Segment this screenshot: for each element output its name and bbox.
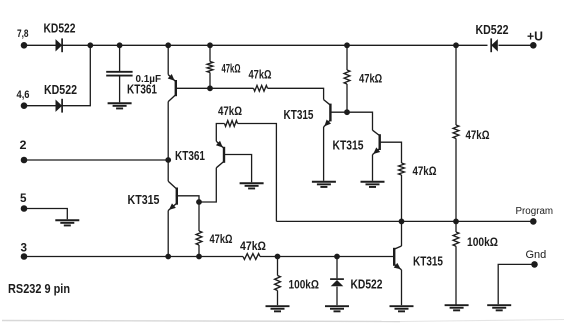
svg-text:47kΩ: 47kΩ <box>218 106 242 118</box>
wire Q5 base jog <box>176 196 199 202</box>
label Q4 KT315 <box>333 138 364 152</box>
junction pin2 node <box>165 157 171 163</box>
label R5 value 47k <box>218 106 242 118</box>
svg-text:KD522: KD522 <box>44 83 77 97</box>
resistor R4 47k <box>399 163 405 175</box>
label Q1 KT361 <box>127 83 157 97</box>
wire R8 top lead <box>277 257 279 276</box>
wire Q1-Q5 collector chain <box>167 102 169 182</box>
resistor R1 47k <box>207 62 213 73</box>
wire Q3 base to R3 node <box>330 111 347 113</box>
label pin 5 <box>20 191 27 205</box>
junction R8 / pin3 <box>275 254 281 260</box>
svg-text:+U: +U <box>527 29 543 43</box>
label C1 value 0.1uF <box>136 73 162 85</box>
junction Q5 emitter / pin3 <box>165 254 171 260</box>
junction node X <box>196 199 202 205</box>
ground (D3) <box>325 306 349 311</box>
svg-text:KT315: KT315 <box>333 138 364 152</box>
label R3 value 47k <box>359 72 382 86</box>
ground (Q2 base) <box>240 183 264 188</box>
label Q2 KT361 <box>175 149 205 163</box>
junction on rail at 4,6 join <box>87 42 93 48</box>
wire R1 bottom lead <box>209 73 211 89</box>
wire Q4 base to R4 <box>380 142 402 163</box>
wire top rail diode-to-+U segment <box>499 44 534 46</box>
wire Q6 collector to Program line <box>401 221 403 246</box>
label pin 7,8 <box>17 28 29 40</box>
terminal +U <box>530 42 537 49</box>
svg-text:47kΩ: 47kΩ <box>466 130 490 142</box>
junction Q6 collector / Program <box>399 219 405 225</box>
wire Q1 base to R1 node <box>176 87 210 89</box>
resistor R3 47k <box>344 70 350 84</box>
wire Q2 collector down to node X <box>199 168 216 202</box>
label D4 KD522 <box>476 23 509 37</box>
wire R2 right lead to Q3 collector <box>268 88 324 99</box>
wire Q4 emitter to ground <box>372 155 374 181</box>
terminal pin 7,8 <box>21 42 28 49</box>
label R9 value 47k <box>466 130 490 142</box>
svg-text:47kΩ: 47kΩ <box>359 72 382 86</box>
ground (Gnd terminal) <box>487 305 511 310</box>
wire R6 bottom lead <box>198 245 200 257</box>
svg-text:100kΩ: 100kΩ <box>467 235 498 249</box>
label D2 KD522 <box>44 83 77 97</box>
terminal pin 3 <box>21 253 28 260</box>
transistor Q4 KT315 (NPN) <box>373 130 381 154</box>
terminal pin 4,6 <box>21 102 28 109</box>
wire capacitor bottom lead <box>119 77 121 103</box>
ground (R8) <box>266 306 290 311</box>
svg-text:47kΩ: 47kΩ <box>222 64 241 76</box>
svg-text:KT315: KT315 <box>128 193 160 207</box>
wire capacitor top lead <box>119 45 121 71</box>
wire R3 node to Q4 collector <box>347 112 373 130</box>
wire Q2 base to ground <box>224 155 252 183</box>
label R2 value 47k <box>249 70 272 82</box>
diode D4 KD522 (+U rail) <box>491 38 498 52</box>
label +U <box>527 29 543 43</box>
wire pin 4,6 branch <box>24 45 90 105</box>
wire R3 bottom lead <box>346 84 348 112</box>
wire R5 left lead to Q2 emitter <box>216 124 224 142</box>
wire D3 bottom lead to ground <box>336 287 338 306</box>
wire R9 top lead <box>455 45 457 125</box>
ground (Q3 emitter) <box>312 182 336 187</box>
capacitor C1 0.1uF plates <box>106 72 132 76</box>
svg-text:KT315: KT315 <box>284 108 314 122</box>
svg-text:47kΩ: 47kΩ <box>210 234 233 246</box>
wire Q1 emitter feed <box>167 45 169 74</box>
diode D2 KD522 (pins 4,6) <box>56 99 63 113</box>
label R8 value 100k <box>289 278 320 292</box>
resistor R8 100k <box>275 276 281 291</box>
wire R8 bottom lead to ground <box>277 291 279 306</box>
svg-text:KT361: KT361 <box>127 83 157 97</box>
label Q6 KT315 <box>413 255 443 269</box>
label pin 3 <box>21 241 28 255</box>
transistor Q6 KT315 (NPN) <box>394 246 402 270</box>
wire R3 top lead <box>346 45 348 70</box>
wire pin3 line right of R7 <box>260 256 394 258</box>
ground (capacitor C1) <box>108 103 132 108</box>
label Q5 KT315 <box>128 193 160 207</box>
svg-text:KD522: KD522 <box>351 278 383 292</box>
junction Q3 base / R3 / Q4 collector <box>344 109 350 115</box>
svg-text:Program: Program <box>516 206 554 217</box>
wire pin 3 line <box>24 256 243 258</box>
resistor R5 47k <box>225 121 238 127</box>
label R6 value 47k <box>210 234 233 246</box>
wire Program line <box>276 220 533 222</box>
label D1 KD522 <box>44 22 76 36</box>
wire Q6 emitter to ground <box>401 270 403 305</box>
terminal pin 2 <box>21 157 28 164</box>
terminal Program <box>530 218 537 225</box>
junction on rail at capacitor <box>117 42 123 48</box>
svg-text:100kΩ: 100kΩ <box>289 278 320 292</box>
ground (R10) <box>445 305 469 310</box>
junction on rail at R9 <box>453 42 459 48</box>
label pin 2 <box>20 138 27 152</box>
label Program <box>516 206 554 217</box>
resistor R10 100k <box>453 232 459 246</box>
junction on rail at Q1 emitter <box>165 42 171 48</box>
label Gnd <box>526 249 547 261</box>
junction R6 / pin3 <box>196 254 202 260</box>
resistor R2 47k <box>254 85 268 91</box>
svg-text:KD522: KD522 <box>44 22 76 36</box>
wire R4 bottom lead to Program line <box>401 175 403 221</box>
svg-text:7,8: 7,8 <box>17 28 29 40</box>
svg-text:KT315: KT315 <box>413 255 443 269</box>
resistor R9 47k <box>453 125 459 139</box>
label D3 KD522 <box>351 278 383 292</box>
wire R10 top lead <box>455 221 457 232</box>
svg-text:RS232 9 pin: RS232 9 pin <box>8 281 70 296</box>
resistor R6 47k <box>196 231 202 245</box>
label Q3 KT315 <box>284 108 314 122</box>
ground (Q4 emitter) <box>361 182 385 187</box>
svg-text:4,6: 4,6 <box>17 89 30 101</box>
resistor R7 47k <box>243 254 260 260</box>
svg-text:5: 5 <box>20 191 27 205</box>
transistor Q2 KT361 (PNP) <box>216 141 224 168</box>
junction D3 / pin3 <box>334 254 340 260</box>
svg-text:Gnd: Gnd <box>526 249 547 261</box>
wire D3 top lead <box>336 257 338 279</box>
svg-text:2: 2 <box>20 138 27 152</box>
wire pin 5 stub <box>24 209 67 220</box>
svg-text:3: 3 <box>21 241 28 255</box>
diode D3 KD522 (clamp on pin 3 node) <box>330 279 344 286</box>
wire Q5 emitter to pin3 line <box>167 211 169 257</box>
transistor Q3 KT315 (NPN) <box>324 100 331 127</box>
junction on rail at R1 <box>207 42 213 48</box>
wire pin 2 line <box>24 159 168 161</box>
label R7 value 47k <box>240 241 266 253</box>
svg-text:47kΩ: 47kΩ <box>240 241 266 253</box>
wire R9 bottom lead <box>455 139 457 222</box>
wire top supply rail <box>24 44 488 46</box>
transistor Q1 KT361 (PNP) <box>168 74 176 102</box>
wire R5 right lead to Program node <box>238 124 277 222</box>
label R1 value 47k <box>222 64 241 76</box>
ground (Q6 emitter) <box>390 306 414 311</box>
terminal Gnd <box>531 261 538 268</box>
label RS232 9 pin <box>8 281 70 296</box>
svg-text:47kΩ: 47kΩ <box>249 70 272 82</box>
terminal pin 5 <box>21 205 28 212</box>
diode D1 KD522 (pins 7,8) <box>56 38 63 52</box>
svg-text:47kΩ: 47kΩ <box>413 166 437 178</box>
wire Gnd terminal stub <box>498 264 534 304</box>
transistor Q5 KT315 (NPN) <box>168 181 177 210</box>
wire R2 left lead <box>210 87 254 89</box>
svg-text:KD522: KD522 <box>476 23 509 37</box>
wire R1 top lead <box>209 45 211 61</box>
wire node X to R6 <box>198 202 200 231</box>
junction Q1 base / R1 <box>207 85 213 91</box>
ground (pin 5) <box>55 220 79 225</box>
junction R9-R10 / Program <box>453 219 459 225</box>
wire R10 bottom lead to ground <box>455 246 457 305</box>
label R4 value 47k <box>413 166 437 178</box>
scan artifact streak at bottom <box>2 320 564 322</box>
junction on rail at R3 <box>344 42 350 48</box>
label R10 value 100k <box>467 235 498 249</box>
svg-text:KT361: KT361 <box>175 149 205 163</box>
label pin 4,6 <box>17 89 30 101</box>
wire Q3 emitter to ground <box>323 127 325 181</box>
